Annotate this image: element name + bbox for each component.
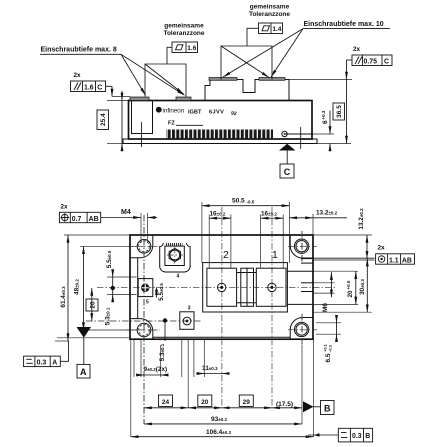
svg-text:FZ: FZ (168, 121, 175, 127)
svg-text:50.5: 50.5 (232, 198, 245, 205)
svg-text:61.4±0.3: 61.4±0.3 (60, 286, 67, 308)
datum frame 0.3 A (24, 356, 61, 367)
centerline vertical left column (green) (143, 215, 145, 424)
svg-text:4: 4 (177, 274, 180, 280)
svg-text:0.75: 0.75 (364, 59, 378, 66)
svg-text:5.3±0.1: 5.3±0.1 (104, 307, 111, 325)
right terminal pad 2 hatch (259, 78, 285, 81)
svg-text:C: C (384, 59, 389, 66)
pin row (166, 130, 273, 139)
centerline terminal 2 vertical (221, 207, 223, 408)
leader flatness left (167, 47, 172, 64)
right edge slot lines (301, 258, 313, 260)
svg-text:16±0.2: 16±0.2 (261, 210, 277, 217)
module outline (top view) (130, 235, 313, 339)
terminal 4 thread hatch (166, 243, 183, 246)
leader flatness right (247, 28, 259, 46)
body top extension line left (107, 100, 129, 102)
leader datum frame A (60, 341, 68, 361)
svg-text:29: 29 (243, 399, 251, 406)
chain dimension row 24 20 29 (17.5) (144, 407, 188, 409)
centerline horizontal top-right hole (288, 245, 317, 247)
svg-text:-0.5: -0.5 (247, 200, 255, 205)
dim 5.3 right (164, 321, 166, 330)
svg-text:1.6: 1.6 (84, 85, 94, 92)
leader Einschraubtiefe 10 arrow 1 (223, 29, 303, 77)
dim 93+-0.2 (144, 423, 302, 425)
svg-text:6JVV: 6JVV (209, 110, 224, 116)
svg-text:106.4±0.3: 106.4±0.3 (206, 429, 232, 436)
dim 106.4+-0.3 (131, 436, 314, 438)
terminal 2 hole (218, 283, 226, 291)
left screw centerline tick (141, 122, 143, 137)
baseplate (side view) (123, 139, 317, 144)
flatness frame 1.4 right (259, 23, 283, 34)
centerline vertical top-right hole (green) (301, 231, 303, 262)
dim 20+0.5 right (355, 271, 357, 304)
corner boss bottom-left (130, 319, 153, 340)
svg-text:Toleranzzone: Toleranzzone (249, 11, 290, 18)
box 20 (198, 395, 212, 407)
centerline terminal 1 vertical (271, 207, 273, 408)
terminal 4 pocket (160, 243, 190, 272)
svg-text:1.1: 1.1 (389, 257, 399, 264)
box 24 (159, 395, 173, 407)
svg-text:0.3: 0.3 (37, 360, 47, 367)
svg-text:92: 92 (231, 111, 238, 118)
centerline vertical bottom-right hole (green) (301, 314, 303, 345)
svg-text:5.5±0.5: 5.5±0.5 (158, 283, 165, 301)
leader Einschraubtiefe 8 arrow 1 (121, 54, 146, 95)
corner boss bottom-right (290, 317, 313, 339)
datum C triangle (279, 144, 296, 151)
dim 6.5 right (316, 322, 341, 324)
dim 30+-0.3 right (366, 259, 368, 313)
svg-text:36.5: 36.5 (336, 105, 343, 118)
svg-text:M6: M6 (322, 303, 329, 312)
svg-text:2x: 2x (378, 245, 386, 252)
dimension 6+0.3 (329, 111, 331, 135)
svg-text:5.5±0.5: 5.5±0.5 (106, 250, 113, 268)
leader datum frame B (308, 434, 338, 436)
terminal 5 block (138, 279, 153, 297)
terminal 2 square (207, 268, 237, 306)
svg-text:-0.3: -0.3 (328, 344, 333, 352)
svg-text:(17.5): (17.5) (276, 401, 293, 408)
leader parallelism left (106, 85, 113, 87)
svg-text:30±0.3: 30±0.3 (359, 279, 366, 295)
right terminal block (raised) (205, 80, 289, 101)
dim 13.2 vertical right (366, 235, 368, 259)
leader parallelism right (347, 59, 353, 61)
svg-text:gemeinsame: gemeinsame (164, 23, 204, 30)
svg-text:Einschraubtiefe max. 8: Einschraubtiefe max. 8 (41, 47, 117, 54)
corner boss top-right (290, 235, 313, 258)
mounting hole bottom-right with hex nut (294, 322, 308, 336)
svg-text:25.4: 25.4 (100, 113, 107, 126)
svg-text:2x: 2x (74, 72, 82, 79)
dim 5.5 right (156, 287, 158, 297)
svg-text:+0.3: +0.3 (321, 110, 326, 119)
dimension 25.4 (121, 91, 123, 101)
dim 16+-0.2 left (209, 217, 231, 219)
svg-text:A: A (52, 360, 57, 367)
terminal 1 square (256, 268, 286, 306)
svg-text:11±0.3: 11±0.3 (202, 365, 218, 372)
dim 50.5-0.5 (202, 205, 290, 207)
position frame 0.7 AB (59, 212, 100, 222)
terminal 4 screw circle (170, 250, 180, 260)
link bars between terminals (241, 268, 254, 306)
svg-text:48±0.2: 48±0.2 (73, 279, 80, 295)
svg-text:1: 1 (272, 249, 278, 261)
module body (side view) (129, 101, 313, 140)
dim 20 box (91, 288, 93, 321)
svg-text:0.3: 0.3 (352, 433, 362, 440)
left inner wall line (137, 258, 139, 319)
tolerance zone rect left (145, 64, 186, 97)
terminal 4 hex nut (169, 248, 180, 261)
datum B triangle (303, 401, 314, 412)
svg-text:16±0.2: 16±0.2 (210, 210, 226, 217)
svg-text:9±0.2(2x): 9±0.2(2x) (144, 366, 168, 373)
dim 5.3 left (112, 288, 114, 295)
dim 13.2 horizontal (289, 217, 313, 219)
centerline horizontal bottom-right hole (288, 329, 317, 331)
svg-text:infineon: infineon (163, 107, 185, 114)
dim 61.4 (67, 235, 69, 341)
svg-text:AB: AB (402, 257, 412, 264)
dim 16+-0.2 right (261, 217, 284, 219)
internal ledge line right (285, 133, 313, 135)
centerline horizontal top-left hole (127, 245, 160, 247)
svg-text:13.2±0.2: 13.2±0.2 (316, 210, 338, 217)
svg-text:5.3±0.1: 5.3±0.1 (159, 343, 166, 361)
parallelism frame 2x 1.6 C (71, 81, 106, 92)
svg-text:B: B (324, 403, 331, 413)
mounting hole top-left (137, 240, 151, 254)
svg-text:C: C (284, 167, 291, 177)
leader Einschraubtiefe 8 arrow 2 (121, 54, 185, 95)
left terminal pad 1 (130, 97, 149, 101)
svg-text:6.5: 6.5 (325, 353, 332, 362)
svg-text:1.4: 1.4 (272, 26, 281, 33)
screw hole circle right on pin row (282, 131, 287, 136)
mounting hole bottom-left (137, 323, 151, 337)
svg-text:1.6: 1.6 (187, 45, 196, 52)
svg-text:0.7: 0.7 (72, 216, 82, 223)
svg-text:5: 5 (146, 300, 149, 306)
svg-text:20: 20 (201, 399, 209, 406)
terminal 4 inner square (165, 246, 184, 265)
mounting hole top-right with hex nut (294, 239, 308, 253)
datum frame 0.3 B (338, 428, 372, 442)
terminal 4 centerline cross (174, 247, 176, 264)
svg-text:93±0.2: 93±0.2 (211, 416, 227, 423)
svg-text:2x: 2x (353, 46, 361, 53)
terminal 5 circles (141, 284, 149, 292)
centerline horizontal bottom-left hole (127, 329, 160, 331)
terminal 3 circles (183, 317, 191, 325)
terminal 1 hole (268, 283, 276, 291)
terminal 3 block (180, 312, 194, 330)
dim 48 (83, 246, 85, 330)
infineon logo (156, 107, 162, 113)
bottom extension lines (133, 339, 135, 377)
svg-text:Einschraubtiefe max. 10: Einschraubtiefe max. 10 (304, 21, 384, 28)
extension lines for 50.5 and 16 dims (201, 202, 203, 263)
baseplate bottom extension line (107, 143, 123, 145)
extension module top right (313, 234, 372, 236)
svg-text:Toleranzzone: Toleranzzone (163, 30, 204, 37)
datum A triangle (77, 327, 92, 338)
junction dot terminal 3 (163, 318, 167, 322)
baseplate tick right (300, 127, 302, 149)
leader Einschraubtiefe 10 arrow 2 (271, 29, 303, 77)
corner boss top-left (130, 235, 153, 258)
left terminal pad 2 (176, 97, 191, 101)
svg-text:20: 20 (89, 301, 96, 309)
svg-text:24: 24 (162, 399, 170, 406)
svg-text:C: C (97, 85, 102, 92)
power terminal outer block (203, 263, 288, 312)
svg-text:13.2±0.2: 13.2±0.2 (358, 208, 365, 230)
svg-text:B: B (365, 433, 370, 440)
svg-text:2: 2 (223, 249, 229, 261)
junction dot left (111, 286, 115, 290)
dim 5.5 left (112, 270, 114, 277)
leader tab to position frame 1.1AB (313, 257, 375, 259)
parallelism frame 2x 0.75 C (352, 55, 392, 66)
baseplate tick left (141, 137, 143, 147)
svg-text:M4: M4 (121, 209, 131, 216)
main horizontal centerline through terminals (97, 286, 336, 288)
svg-text:AB: AB (89, 216, 99, 223)
svg-text:gemeinsame: gemeinsame (250, 4, 290, 11)
flatness frame 1.6 left (172, 42, 198, 53)
ext lines right tabs (313, 270, 358, 272)
dimension 36.5 (346, 80, 348, 144)
tolerance zone rect right (221, 46, 272, 80)
svg-text:6: 6 (322, 120, 329, 124)
right terminal pad 1 hatch (209, 78, 237, 81)
svg-text:IGBT: IGBT (188, 110, 202, 116)
M4 leader with position frame (101, 217, 141, 219)
svg-text:20: 20 (347, 290, 354, 298)
extension line right terminal top (289, 79, 352, 81)
tolerance zone diagonal left (145, 64, 184, 94)
left screw block (inside body) (132, 101, 153, 134)
svg-text:A: A (80, 367, 87, 377)
position frame 1.1 AB (376, 254, 415, 264)
terminal 3 centerline (86, 320, 202, 322)
tolerance zone diagonal right (221, 46, 269, 78)
svg-text:2x: 2x (61, 204, 69, 211)
bottom inner wall line (153, 336, 290, 338)
box 29 (239, 395, 253, 407)
svg-text:3: 3 (188, 305, 191, 311)
svg-text:+0.5: +0.5 (346, 280, 351, 289)
